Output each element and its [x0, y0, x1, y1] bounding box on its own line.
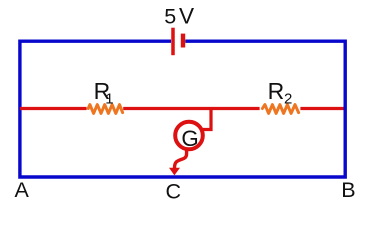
svg-text:2: 2: [284, 90, 292, 107]
svg-text:1: 1: [105, 90, 113, 107]
svg-text:C: C: [166, 180, 182, 204]
svg-text:G: G: [181, 126, 198, 151]
svg-text:A: A: [15, 178, 30, 202]
svg-text:V: V: [179, 4, 194, 29]
svg-text:R: R: [268, 78, 285, 104]
svg-text:5: 5: [164, 5, 176, 29]
svg-text:B: B: [341, 178, 355, 202]
